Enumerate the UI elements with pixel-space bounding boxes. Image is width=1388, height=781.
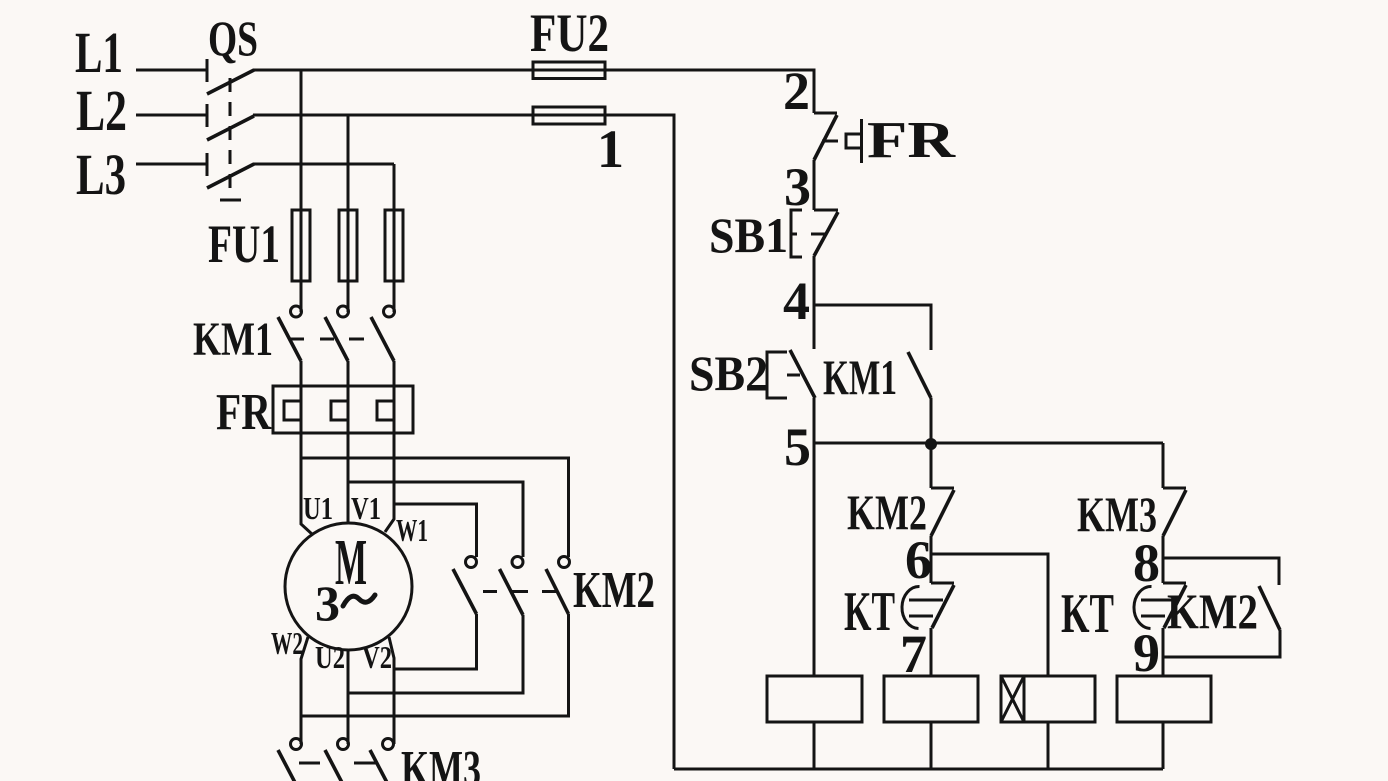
KM3 pole 3 blade <box>370 750 393 781</box>
FR actuator bar <box>860 119 863 163</box>
wire KM1 pole 1 to motor <box>301 361 313 535</box>
wire SB2 to KM1 coil <box>813 398 816 676</box>
svg-text:6: 6 <box>905 530 932 590</box>
branch wire node U to KM2 pole 3 <box>301 458 569 557</box>
svg-text:W1: W1 <box>396 512 428 548</box>
QS pole 3 blade <box>207 164 254 188</box>
KM1 linkage dash 3 <box>349 338 364 341</box>
svg-text:QS: QS <box>208 10 258 66</box>
wire node 7 <box>930 628 933 676</box>
QS pole 2 blade <box>207 116 254 140</box>
node 6 branch to KT coil <box>931 554 1048 676</box>
coil KM3 <box>1117 676 1211 722</box>
disconnect switch QS pole 2 fixed contact <box>206 104 209 127</box>
wire KM1 coil bottom <box>813 722 816 769</box>
coil KT X mark <box>1001 676 1024 722</box>
FR heater element 2 <box>331 401 348 420</box>
svg-text:L1: L1 <box>75 20 123 85</box>
coil KM1 <box>767 676 862 722</box>
KT left chord lower <box>909 615 933 618</box>
wire KM1 pole 2 to motor <box>347 361 350 523</box>
KM1 pole 1 blade <box>278 317 301 361</box>
svg-text:L3: L3 <box>76 142 126 207</box>
junction dot node 5 <box>925 438 937 450</box>
wire U2 down from motor <box>347 650 350 744</box>
KM2 linkage dash 3 <box>542 590 556 593</box>
KT left chord upper <box>909 599 943 602</box>
wire KT coil bottom <box>1047 722 1050 769</box>
branch wire node V to KM2 pole 2 <box>348 482 523 557</box>
KT delayed contact left blade <box>932 585 954 628</box>
svg-text:FR: FR <box>216 384 272 441</box>
branch wire W2 to KM2 pole 3 bottom <box>301 614 569 716</box>
wire node 6 <box>930 536 933 583</box>
wire node 5 to KM2 NC <box>930 443 933 488</box>
KM3 pole 2 blade <box>325 750 348 781</box>
contactor KM3 pole 1 terminal circle <box>291 739 302 750</box>
fuse FU2 lower <box>533 107 605 124</box>
svg-text:8: 8 <box>1133 533 1160 593</box>
svg-text:KM2: KM2 <box>1167 583 1258 639</box>
wire L2 bus to control corner <box>253 115 674 769</box>
bottom return bus <box>674 768 1163 771</box>
SB2 linkage dash <box>787 374 800 377</box>
KM2 pole 1 blade <box>453 569 477 614</box>
FR heater element 1 <box>284 401 301 420</box>
contactor KM1 pole 3 terminal circle <box>384 306 395 317</box>
branch wire U2 to KM2 pole 2 bottom <box>348 615 523 693</box>
node 8 branch rail <box>1163 558 1279 585</box>
KT delayed contact right blade <box>1164 585 1186 628</box>
svg-text:FR: FR <box>867 112 957 169</box>
KM3 NC contact blade <box>1163 490 1186 536</box>
contactor KM3 pole 3 terminal circle <box>383 739 394 750</box>
coil KT <box>1001 676 1095 722</box>
wire L1 bus to control corner <box>253 70 814 113</box>
disconnect switch QS pole 1 fixed contact <box>206 59 209 82</box>
KT delayed contact right seat <box>1163 582 1186 585</box>
wire node 4 branch to KM1 aux <box>814 305 931 350</box>
contactor KM1 pole 1 terminal circle <box>291 306 302 317</box>
KM3 linkage dash 2 <box>354 762 376 765</box>
fuse FU1 pole 3 <box>385 210 403 281</box>
wire KM1 pole 3 to motor <box>385 361 394 532</box>
svg-text:4: 4 <box>783 271 810 331</box>
KM2 pole 3 blade <box>546 569 569 614</box>
KM3 NC contact seat <box>1163 487 1186 490</box>
contactor KM1 pole 2 terminal circle <box>338 306 349 317</box>
KM2 pole 2 blade <box>500 569 524 615</box>
wire L2 lead <box>136 114 206 117</box>
svg-text:9: 9 <box>1133 623 1160 683</box>
wire phase A vertical <box>300 70 303 312</box>
node 5 rail <box>814 442 1163 445</box>
control branch: wire from node 2 down <box>813 70 816 113</box>
wire node 4 vertical <box>813 256 816 349</box>
thermal overload FR box <box>273 386 413 433</box>
wire phase C vertical <box>393 164 396 312</box>
KM1 linkage dash 2 <box>320 338 334 341</box>
wire KM2 NO bottom <box>1163 630 1280 657</box>
svg-text:SB2: SB2 <box>689 345 768 401</box>
KM2 NC contact seat <box>931 487 954 490</box>
wire L3 lead <box>136 163 206 166</box>
fuse FU1 pole 2 <box>339 210 357 281</box>
KT right delay arc <box>1134 586 1152 628</box>
SB2 button bracket <box>767 352 787 398</box>
wire L1 lead <box>136 69 206 72</box>
wire phase B vertical <box>347 115 350 312</box>
KM1 auxiliary contact blade <box>908 352 931 398</box>
FR heater element 3 <box>377 401 394 420</box>
QS linkage end tick <box>220 199 241 202</box>
wire node 9 to KM3 coil <box>1162 628 1165 676</box>
svg-text:FU2: FU2 <box>530 3 609 63</box>
FR NC contact seat <box>814 112 837 115</box>
branch wire node W to KM2 pole 1 <box>394 504 477 557</box>
svg-text:2: 2 <box>783 61 810 121</box>
KM2 NO contact blade right <box>1259 586 1280 630</box>
SB1 linkage dashes <box>791 233 797 236</box>
wire node 5 right corner <box>1162 443 1165 488</box>
svg-text:U2: U2 <box>315 639 345 675</box>
KT left delay arc <box>902 586 920 628</box>
SB1 button bracket <box>791 210 802 257</box>
svg-text:KM2: KM2 <box>573 562 655 619</box>
branch wire V2 to KM2 pole 1 bottom <box>394 614 477 669</box>
QS pole 1 blade <box>207 70 254 94</box>
KM2 linkage dashes <box>483 590 497 593</box>
fuse FU1 pole 1 <box>292 210 310 281</box>
svg-text:KT: KT <box>844 581 895 643</box>
coil KT X mark 2 <box>1001 676 1024 722</box>
fuse FU2 upper <box>533 62 605 79</box>
KT delayed contact left seat <box>931 582 954 585</box>
svg-text:3: 3 <box>784 157 811 217</box>
wire KM1 aux bottom <box>930 398 933 443</box>
svg-text:KT: KT <box>1061 583 1114 645</box>
wire L3 bus <box>253 163 394 166</box>
svg-text:V2: V2 <box>362 639 392 675</box>
contactor KM3 pole 2 terminal circle <box>338 739 349 750</box>
svg-text:W2: W2 <box>271 625 303 661</box>
SB1 linkage dash 2 <box>811 233 825 236</box>
start button SB2 blade <box>790 350 815 398</box>
KT right chord lower <box>1141 615 1165 618</box>
wire node 8 <box>1162 536 1165 583</box>
svg-text:L2: L2 <box>76 78 127 143</box>
wire node 3 <box>813 160 816 210</box>
FR NC contact tick <box>822 140 838 143</box>
KM1 pole 2 blade <box>325 317 348 361</box>
disconnect switch QS pole 3 fixed contact <box>206 153 209 176</box>
wire KM2 coil bottom <box>930 722 933 769</box>
svg-text:SB1: SB1 <box>709 207 788 263</box>
SB1 blade <box>814 212 838 256</box>
FR NC contact blade <box>814 115 837 160</box>
svg-text:KM1: KM1 <box>823 349 897 405</box>
svg-text:FU1: FU1 <box>208 214 280 274</box>
KM1 linkage dashes <box>290 338 304 341</box>
contactor KM2 pole 1 terminal circle <box>466 557 477 568</box>
KM2 NC contact blade <box>931 490 954 536</box>
wire V2 down from motor <box>389 637 394 744</box>
motor M circle <box>285 523 412 650</box>
svg-text:5: 5 <box>784 417 811 477</box>
svg-text:KM3: KM3 <box>401 741 481 781</box>
coil KM2 <box>884 676 978 722</box>
KT right chord upper <box>1141 599 1175 602</box>
svg-text:U1: U1 <box>303 490 333 526</box>
motor tilde <box>343 595 375 606</box>
KM3 pole 1 blade <box>278 750 301 781</box>
svg-text:V1: V1 <box>351 490 381 526</box>
wire W2 down from motor <box>301 637 308 744</box>
svg-text:1: 1 <box>597 119 624 179</box>
contactor KM2 pole 3 terminal circle <box>559 557 570 568</box>
svg-text:KM1: KM1 <box>193 313 273 366</box>
QS linkage dashed line <box>229 78 232 196</box>
KM3 linkage dashes <box>299 762 320 765</box>
KM1 pole 3 blade <box>371 317 394 361</box>
svg-text:3: 3 <box>315 575 340 631</box>
wire KM3 coil bottom <box>1162 722 1165 769</box>
FR actuator notch <box>846 134 862 148</box>
coil KT divider <box>1023 676 1026 722</box>
stop button SB1 seat <box>814 209 838 212</box>
KM2 linkage dash 2 <box>512 590 528 593</box>
contactor KM2 pole 2 terminal circle <box>512 557 523 568</box>
